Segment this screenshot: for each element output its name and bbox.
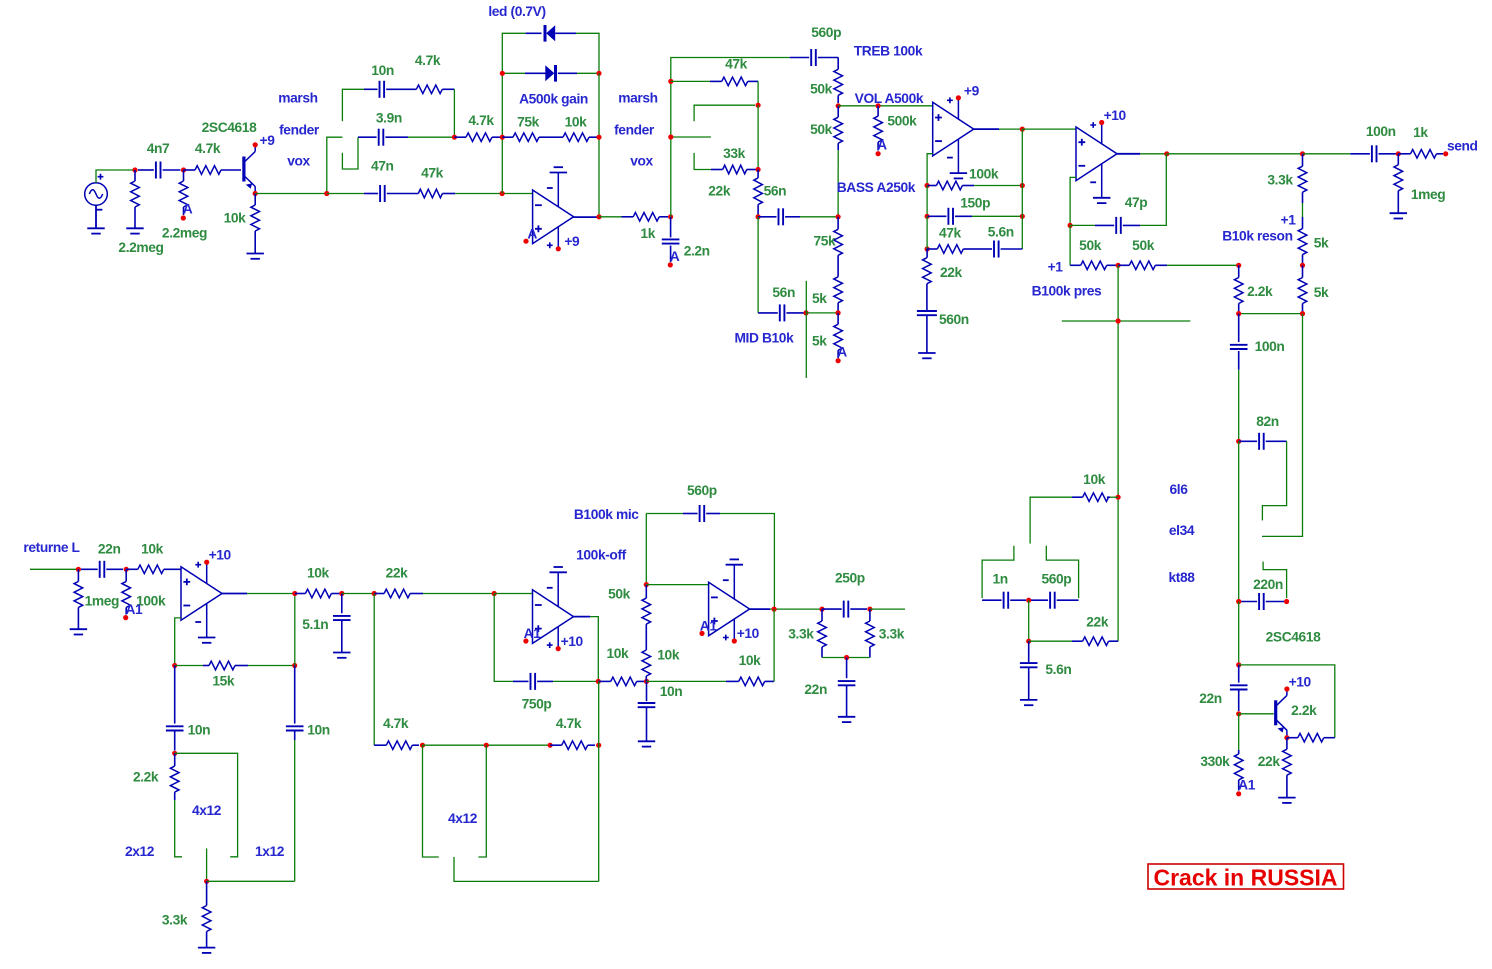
node junction [420, 743, 425, 748]
svg-text:3.3k: 3.3k [788, 627, 814, 642]
resistor 50k R15 TREB lower [837, 106, 839, 117]
transistor Q2 2SC4618 [1274, 700, 1277, 725]
svg-text:47k: 47k [725, 57, 748, 72]
resistor 50k R14 TREB upper [837, 58, 839, 70]
ground C24 [638, 740, 655, 742]
wire V1 top to node [96, 170, 135, 183]
node junction [1020, 183, 1025, 188]
switch S2 contact marsh [694, 105, 755, 121]
capacitor 2.2n C5 [670, 217, 672, 238]
node junction VOL [836, 103, 841, 108]
resistor 10k R4 [254, 194, 256, 206]
node A [876, 151, 881, 156]
node junction [819, 607, 824, 612]
svg-text:2.2k: 2.2k [133, 770, 159, 785]
resistor 5k R18 [837, 313, 839, 324]
wire feedback loop Q2 [1239, 665, 1335, 738]
node junction [1116, 318, 1121, 323]
resistor 2.2k R29 [1238, 265, 1240, 277]
wire MID pole [805, 281, 807, 378]
node junction [548, 743, 553, 748]
node junction [172, 663, 177, 668]
wire output [599, 216, 622, 218]
wire VOL row [838, 105, 933, 107]
resistor 5k R30 [1302, 265, 1304, 277]
svg-text:3.3k: 3.3k [1267, 172, 1293, 187]
svg-text:5k: 5k [1314, 235, 1329, 250]
wire +1 column [1069, 225, 1071, 265]
wire base [1239, 713, 1274, 715]
resistor 3.3k R39 [206, 881, 208, 905]
svg-text:75k: 75k [813, 233, 836, 248]
svg-text:4x12: 4x12 [192, 803, 222, 818]
node junction [492, 591, 497, 596]
svg-text:4.7k: 4.7k [383, 716, 409, 731]
resistor 2.2meg R2 [183, 170, 185, 181]
svg-text:33k: 33k [723, 146, 746, 161]
svg-text:A1: A1 [700, 619, 718, 634]
svg-text:fender: fender [279, 123, 320, 138]
emitter wire [1286, 730, 1288, 738]
wire 4.7k row left [373, 594, 375, 746]
node junction [1164, 151, 1169, 156]
resistor 2.2k R31 [1287, 737, 1298, 739]
svg-text:6l6: 6l6 [1170, 482, 1189, 497]
svg-text:+1: +1 [1048, 259, 1064, 274]
node junction [925, 246, 930, 251]
node junction [1020, 214, 1025, 219]
resistor 33k R12 [711, 169, 723, 171]
speaker bracket B2 right [478, 745, 486, 857]
svg-text:A: A [183, 202, 193, 217]
capacitor 560p C28 [1031, 599, 1048, 601]
wire [806, 312, 838, 314]
speaker bracket B1 right [175, 753, 238, 857]
svg-text:4.7k: 4.7k [468, 113, 494, 128]
node junction [500, 71, 505, 76]
svg-text:A: A [837, 345, 847, 360]
wire [822, 657, 870, 659]
svg-text:75k: 75k [517, 115, 540, 130]
switch S2 contact fender [694, 153, 711, 170]
resistor 4.7k R5 [416, 85, 442, 94]
svg-text:VOL A500k: VOL A500k [855, 91, 924, 106]
svg-text:A1: A1 [1238, 778, 1256, 793]
svg-text:150p: 150p [960, 195, 990, 210]
svg-text:BASS A250k: BASS A250k [837, 180, 916, 195]
svg-text:kt88: kt88 [1168, 570, 1195, 585]
svg-text:56n: 56n [764, 184, 787, 199]
node junction [1300, 263, 1305, 268]
svg-text:+10: +10 [561, 634, 584, 649]
capacitor 56n C7 [758, 312, 778, 314]
node junction [644, 679, 649, 684]
resistor 4.7k R49 [550, 744, 562, 746]
ground R1 [126, 227, 143, 229]
svg-text:50k: 50k [1132, 238, 1155, 253]
svg-text:10k: 10k [606, 646, 629, 661]
node junction [668, 214, 673, 219]
svg-text:250p: 250p [835, 571, 865, 586]
svg-text:10k: 10k [1083, 472, 1106, 487]
svg-text:el34: el34 [1169, 523, 1195, 538]
node junction [1284, 599, 1289, 604]
svg-text:22n: 22n [98, 542, 121, 557]
svg-text:MID B10k: MID B10k [734, 331, 794, 346]
capacitor 100n C13 [1303, 153, 1351, 155]
svg-text:B100k mic: B100k mic [574, 507, 639, 522]
svg-text:22k: 22k [1258, 754, 1281, 769]
wire [1028, 600, 1030, 641]
capacitor 5.6n C29 [1028, 641, 1030, 663]
svg-text:50k: 50k [810, 82, 833, 97]
node junction [132, 167, 137, 172]
switch S1 contact fender [342, 137, 358, 169]
svg-text:2SC4618: 2SC4618 [202, 120, 257, 135]
resistor 100k R20 [927, 185, 936, 187]
svg-text:500k: 500k [887, 114, 917, 129]
svg-text:56n: 56n [772, 285, 795, 300]
resistor 500k R19 [877, 106, 879, 116]
svg-text:send: send [1447, 139, 1478, 154]
ground R34 [70, 628, 87, 630]
op-amp U3 inverting jog [1070, 177, 1076, 225]
svg-text:2.2n: 2.2n [684, 244, 710, 259]
emitter wire [254, 186, 256, 193]
wire [598, 681, 600, 881]
svg-text:A: A [877, 138, 887, 153]
svg-text:220n: 220n [1253, 577, 1283, 592]
svg-text:100k-off: 100k-off [576, 548, 627, 563]
node junction pres 10k [1116, 495, 1121, 500]
svg-text:3.9n: 3.9n [376, 111, 402, 126]
svg-text:10n: 10n [660, 684, 683, 699]
ground C26 [838, 716, 855, 718]
capacitor 22n C18 [81, 568, 98, 570]
svg-text:TREB 100k: TREB 100k [854, 44, 923, 59]
resistor 330k R33 [1238, 714, 1240, 750]
capacitor 560p C8 [790, 57, 810, 59]
resistor 50k R43 [645, 585, 647, 599]
node junction [867, 607, 872, 612]
wire left diode branch [502, 33, 525, 193]
svg-text:returne L: returne L [23, 540, 79, 555]
resistor 3.3k R46 [821, 609, 823, 621]
node junction [292, 663, 297, 668]
node junction [772, 607, 777, 612]
svg-text:22n: 22n [804, 682, 827, 697]
node junction [124, 567, 129, 572]
capacitor 560n C11 [917, 310, 937, 312]
node junction output [596, 214, 601, 219]
op-amp U4 inverting jog [175, 618, 181, 666]
wire [837, 150, 839, 217]
diode D1 [526, 32, 542, 34]
node junction [204, 879, 209, 884]
svg-text:22k: 22k [386, 566, 409, 581]
node A1 [123, 615, 128, 620]
svg-text:100n: 100n [1366, 124, 1396, 139]
svg-text:+9: +9 [564, 234, 580, 249]
resistor 3.3k R47 [869, 609, 871, 621]
svg-text:2.2meg: 2.2meg [162, 225, 207, 240]
svg-text:22k: 22k [940, 265, 963, 280]
ground C29 [1020, 699, 1037, 701]
ground V1 [95, 205, 97, 228]
svg-text:+1: +1 [1281, 212, 1297, 227]
svg-text:2.2k: 2.2k [1247, 284, 1273, 299]
op-amp U2 inverting jog [927, 154, 933, 186]
node junction [1300, 151, 1305, 156]
capacitor 750p C22 [513, 680, 529, 682]
wire pole bracket [1030, 497, 1072, 543]
svg-text:100k: 100k [969, 166, 999, 181]
op-amp U1 output [574, 216, 599, 218]
wire [1238, 602, 1240, 665]
capacitor 150p C9 [926, 186, 928, 217]
svg-text:560p: 560p [1041, 572, 1071, 587]
svg-text:+10: +10 [737, 626, 760, 641]
node junction [500, 191, 505, 196]
svg-text:4.7k: 4.7k [415, 53, 441, 68]
wire input [30, 568, 78, 570]
resistor 10k R44 [645, 644, 647, 650]
node junction [181, 167, 186, 172]
svg-text:82n: 82n [1256, 414, 1279, 429]
svg-text:+9: +9 [964, 83, 980, 98]
resistor 1meg R34 [77, 569, 79, 581]
resistor 22k R51 [1029, 640, 1072, 642]
ground C11 [918, 352, 935, 354]
svg-text:10n: 10n [371, 63, 394, 78]
svg-text:50k: 50k [608, 587, 631, 602]
node junction [596, 135, 601, 140]
wire corner [453, 89, 455, 137]
node junction [484, 743, 489, 748]
resistor 15k R37 [175, 665, 203, 667]
node junction [452, 135, 457, 140]
node junction [925, 183, 930, 188]
resistor 10k R36 [126, 568, 138, 570]
resistor 5k R17 [837, 255, 839, 276]
switch S1 contact marsh [342, 89, 366, 121]
speaker bracket B1 pole [206, 848, 208, 881]
op-amp U2 [933, 102, 974, 156]
node junction [1396, 151, 1401, 156]
wire [1167, 264, 1239, 266]
node junction VOL wiper [876, 103, 881, 108]
switch S4 contact left [982, 546, 1014, 598]
svg-text:100n: 100n [1255, 339, 1285, 354]
node junction [372, 591, 377, 596]
capacitor 5.1n C21 [341, 594, 343, 614]
svg-text:10n: 10n [188, 722, 211, 737]
svg-text:10k: 10k [565, 115, 588, 130]
op-amp U5 output [574, 616, 591, 618]
node junction [292, 591, 297, 596]
title Crack in RUSSIA [1148, 864, 1344, 889]
svg-text:5.6n: 5.6n [1045, 662, 1071, 677]
resistor 75k R16 BASS upper [837, 217, 839, 230]
svg-text:15k: 15k [212, 674, 235, 689]
svg-text:A: A [527, 226, 537, 241]
node junction [668, 134, 673, 139]
svg-text:1x12: 1x12 [255, 844, 285, 859]
svg-text:22n: 22n [1199, 691, 1222, 706]
transistor Q1 2SC4618 [242, 157, 245, 182]
op-amp U3 [1076, 127, 1117, 181]
resistor 4.7k R6 [454, 136, 466, 138]
speaker bracket B2 left [423, 745, 439, 857]
resistor 4.7k R3 [184, 169, 196, 171]
wire [576, 33, 599, 73]
wire [1239, 313, 1303, 315]
svg-text:2.2k: 2.2k [1291, 703, 1317, 718]
node junction S1 [324, 191, 329, 196]
node junction [76, 567, 81, 572]
op-amp U1 [533, 190, 574, 244]
ground R26 [1390, 212, 1407, 214]
wire output to 15k [294, 594, 296, 666]
svg-text:1meg: 1meg [1411, 187, 1445, 202]
svg-text:1k: 1k [1413, 125, 1428, 140]
resistor 10k R40 [295, 593, 306, 595]
collector +10 node [1286, 690, 1288, 696]
svg-text:5.6n: 5.6n [988, 225, 1014, 240]
resistor 100k R35 [125, 569, 127, 581]
capacitor 220n C16 [1239, 601, 1257, 603]
svg-text:B100k pres: B100k pres [1032, 283, 1102, 298]
svg-text:3.3k: 3.3k [879, 627, 905, 642]
node junction [756, 103, 761, 108]
svg-text:10k: 10k [141, 542, 164, 557]
node junction [756, 167, 761, 172]
svg-text:47k: 47k [939, 226, 962, 241]
svg-text:4.7k: 4.7k [556, 716, 582, 731]
svg-text:4n7: 4n7 [147, 141, 170, 156]
svg-text:560n: 560n [939, 312, 969, 327]
node junction [803, 310, 808, 315]
svg-text:47k: 47k [421, 165, 444, 180]
svg-text:A1: A1 [125, 602, 143, 617]
node junction [844, 655, 849, 660]
node A1 [1236, 791, 1241, 796]
resistor 47k R7 [418, 189, 442, 198]
resistor 2.2meg R1 [134, 170, 136, 181]
svg-text:A1: A1 [524, 626, 542, 641]
resistor 10k R42 [598, 680, 610, 682]
node junction [339, 591, 344, 596]
node junction [1236, 439, 1241, 444]
node junction [1026, 598, 1031, 603]
ground R32 [1278, 797, 1295, 799]
node send [1443, 151, 1448, 156]
svg-text:560p: 560p [687, 483, 717, 498]
resistor 22k R22 [926, 249, 928, 258]
capacitor 22n C17 [1238, 665, 1240, 683]
op-amp U4 [181, 567, 222, 621]
wire 56n lower branch [757, 217, 759, 313]
node junction [1236, 711, 1241, 716]
capacitor 10n C19 [174, 666, 176, 724]
switch S3 contact 82n hook [1262, 441, 1286, 520]
svg-text:10k: 10k [739, 653, 762, 668]
svg-text:10k: 10k [657, 648, 680, 663]
svg-text:+10: +10 [1104, 108, 1127, 123]
svg-text:led (0.7V): led (0.7V) [488, 4, 545, 19]
wire right diode branch [598, 73, 600, 217]
svg-text:330k: 330k [1200, 754, 1230, 769]
node junction [1236, 662, 1241, 667]
wire out [870, 608, 905, 610]
svg-text:Crack in RUSSIA: Crack in RUSSIA [1153, 865, 1337, 891]
wire [757, 81, 759, 105]
resistor 22k R41 [374, 593, 384, 595]
svg-text:50k: 50k [810, 122, 833, 137]
crossing wire [1062, 320, 1191, 322]
ground C21 [333, 652, 350, 654]
svg-text:4x12: 4x12 [448, 811, 478, 826]
voltage source V1 [85, 183, 108, 206]
switch S1 pole [327, 137, 343, 193]
resistor 22k R13 [757, 170, 759, 178]
node junction [500, 135, 505, 140]
svg-text:4.7k: 4.7k [195, 141, 221, 156]
resistor 47k R21 [927, 248, 937, 250]
resistor 1k R25 [1398, 153, 1410, 155]
svg-text:+10: +10 [209, 548, 232, 563]
svg-text:5k: 5k [812, 334, 827, 349]
capacitor 5.6n C10 [978, 248, 992, 250]
capacitor 560p C23 [645, 514, 647, 585]
op-amp U5 [533, 590, 574, 644]
resistor 50k R23 [1070, 264, 1081, 266]
node junction BASS [836, 214, 841, 219]
capacitor 1n C27 [982, 599, 1002, 601]
node junction [596, 743, 601, 748]
svg-text:2SC4618: 2SC4618 [1266, 630, 1321, 645]
svg-text:3.3k: 3.3k [162, 912, 188, 927]
resistor 2.2k R38 [174, 753, 176, 766]
op-amp U3 output [1117, 153, 1140, 155]
op-amp U6 [709, 582, 750, 636]
svg-text:1k: 1k [640, 226, 655, 241]
wire [1238, 370, 1240, 442]
wire to op-amp U6 [646, 584, 708, 586]
capacitor 3.9n C3 [358, 136, 377, 138]
svg-text:5.1n: 5.1n [302, 617, 328, 632]
node junction emitter [253, 191, 258, 196]
svg-text:47n: 47n [371, 159, 394, 174]
wire [294, 740, 296, 881]
node junction [668, 79, 673, 84]
resistor 4.7k R48 [374, 744, 386, 746]
wire [423, 744, 551, 746]
wire [1238, 441, 1240, 601]
collector wire and +9 node [254, 145, 256, 151]
svg-text:1meg: 1meg [85, 593, 119, 608]
diode D2 [502, 72, 525, 74]
svg-text:marsh: marsh [278, 91, 317, 106]
svg-text:vox: vox [630, 154, 653, 169]
wire [207, 880, 295, 882]
node junction [836, 310, 841, 315]
node junction [1236, 311, 1241, 316]
capacitor 22n C26 [846, 658, 848, 679]
node junction [1284, 735, 1289, 740]
wire to opamp [455, 193, 532, 195]
wire [408, 136, 454, 138]
